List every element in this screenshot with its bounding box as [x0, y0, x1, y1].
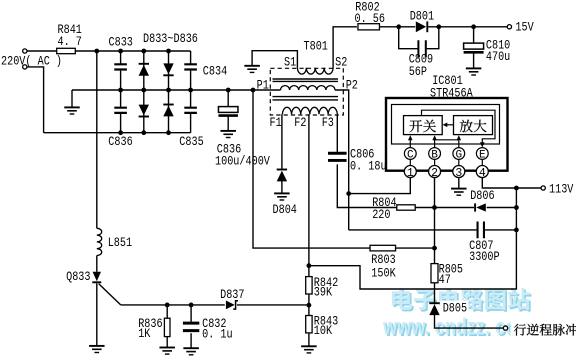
svg-text:100u/400V: 100u/400V [215, 154, 270, 168]
wire R805 to D805 [434, 283, 436, 305]
block switch text [409, 120, 436, 133]
pin 2 circle [429, 166, 441, 178]
wire S1 to ground [252, 51, 297, 68]
ground Q833 [89, 345, 105, 347]
wire C836 to bottom [120, 114, 122, 133]
wire P2 down [335, 90, 349, 230]
svg-text:D801: D801 [410, 10, 434, 24]
ground pin3 [451, 188, 467, 190]
capacitor C836 bridge [114, 108, 127, 113]
wire D837 to R842 junction [237, 304, 309, 306]
IC801 outer box [386, 98, 508, 171]
winding P1-P2 [281, 86, 335, 90]
wire S2 up to 15V rail [333, 27, 357, 68]
svg-text:C833: C833 [109, 36, 133, 50]
diode D836 [163, 106, 173, 117]
wire C807 to rail [485, 229, 517, 231]
svg-text:47: 47 [439, 273, 451, 287]
resistor R841 [57, 48, 76, 53]
wire C809 left stub [399, 27, 418, 49]
stem R836 ground [166, 337, 168, 348]
ground C832 [183, 347, 199, 349]
svg-text:15V: 15V [515, 21, 534, 35]
svg-text:150K: 150K [371, 266, 396, 280]
wire F3-C806 to R804 [336, 114, 338, 152]
svg-text:S2: S2 [335, 56, 347, 70]
svg-text:0. 18u: 0. 18u [350, 160, 387, 174]
junction B-R804 [432, 205, 437, 210]
svg-text:L851: L851 [108, 236, 132, 250]
junction col2 mid [166, 88, 171, 93]
svg-text:C835: C835 [179, 135, 203, 149]
wire F1 down to D804 [281, 114, 283, 169]
junction col1 bottom [141, 130, 146, 135]
wire G stem [458, 140, 460, 148]
svg-text:P1: P1 [257, 79, 269, 93]
block amplifier text [460, 120, 487, 133]
capacitor C832 [183, 323, 199, 331]
ground stem bridge [71, 90, 73, 107]
feedback loop switch to E [422, 110, 496, 142]
svg-text:F1: F1 [270, 116, 282, 130]
wire C806 down [337, 164, 397, 207]
capacitor C836 100u/400V [218, 107, 238, 113]
wire R843 to ground [308, 333, 310, 346]
wire bridge mid rail [72, 89, 281, 91]
svg-text:www. cndzz. com: www. cndzz. com [382, 314, 532, 340]
diode D835 [163, 63, 173, 74]
resistor R843 [306, 316, 312, 333]
arrow amplifier to switch [446, 124, 454, 126]
svg-text:D804: D804 [273, 203, 297, 217]
stem B to pad [434, 159, 436, 165]
wire gate line [121, 304, 225, 306]
stem C832 [190, 305, 192, 322]
pin 1 circle [404, 166, 416, 178]
AC input terminal top [23, 49, 27, 53]
svg-text:470u: 470u [486, 50, 510, 64]
wire pin3 ground stem [458, 178, 460, 189]
ground R843 [301, 345, 317, 347]
pin E circle [476, 148, 488, 160]
junction B-R803 [432, 246, 437, 251]
resistor R842 [306, 277, 312, 294]
capacitor C835 [184, 108, 197, 113]
AC input terminal bottom [23, 65, 27, 69]
IC801 inner box [392, 105, 500, 145]
svg-text:39K: 39K [314, 286, 333, 300]
svg-text:Q833: Q833 [66, 270, 90, 284]
diode D804 [277, 171, 287, 182]
svg-text:F2: F2 [294, 116, 306, 130]
diode D801 [416, 21, 426, 32]
ground D804 [274, 192, 290, 194]
wire R804 to D806 [415, 207, 474, 209]
wire C809 right stub [427, 27, 439, 49]
junction C834 mid [188, 88, 193, 93]
wire AC bottom elbow [27, 67, 43, 133]
svg-text:4. 7: 4. 7 [58, 35, 82, 49]
junction rail-C807 [514, 228, 519, 233]
stem E to pad [481, 159, 483, 165]
wire D806 to rail [487, 207, 517, 209]
junction col2 bottom [166, 130, 171, 135]
capacitor C809 [418, 40, 425, 57]
pin 3 circle [453, 166, 465, 178]
svg-text:C834: C834 [203, 64, 227, 78]
junction C833 mid [118, 88, 123, 93]
transformer dashed box [270, 68, 343, 115]
core lines lower [273, 97, 339, 100]
Q833 gate diagonal [99, 284, 121, 305]
svg-text:113V: 113V [549, 183, 574, 197]
capacitor C810 [464, 43, 484, 49]
svg-text:T801: T801 [304, 40, 328, 54]
wire AC top to R841 [27, 50, 57, 52]
watermark site name shadow [394, 290, 532, 312]
wire C833 column [120, 51, 122, 64]
junction col2 top [166, 49, 171, 54]
block amplifier (fangda) box [454, 116, 493, 135]
label flyback white underlay [511, 321, 576, 338]
wire L851 to Q833 [96, 256, 98, 272]
terminal 15V [507, 25, 511, 29]
wire pin4 to 113V [482, 178, 541, 188]
capacitor C833 [114, 64, 127, 69]
wire P1 down to R803 row [253, 90, 370, 248]
junction D801 cathode [436, 24, 441, 29]
junction pin1-P2 [346, 191, 351, 196]
pin B circle [429, 148, 441, 160]
wire F2 down to R842 [308, 114, 310, 277]
winding F1-F3 [282, 107, 337, 114]
diode D833 [139, 65, 149, 76]
ground S1 [244, 65, 260, 67]
wire diode col2 [168, 51, 170, 133]
svg-text:R803: R803 [371, 253, 395, 267]
svg-text:D805: D805 [443, 302, 467, 316]
ground C836 [220, 130, 236, 132]
svg-text:3300P: 3300P [469, 250, 500, 264]
wire D801 to C810 [428, 26, 507, 28]
wire left vertical to L851 [96, 51, 98, 228]
stem C810 ground [473, 53, 475, 69]
pin C circle [404, 148, 416, 160]
wire R842 to R843 [308, 294, 310, 316]
junction 113V rail [514, 186, 519, 191]
svg-text:10K: 10K [314, 324, 333, 338]
resistor R805 [431, 264, 438, 283]
label flyback pulse (xing nicheng maichong) [514, 324, 576, 336]
thyristor Q833 [93, 272, 101, 281]
wire C833 to mid [120, 71, 122, 108]
resistor R803 [370, 245, 396, 251]
svg-text:C836: C836 [108, 135, 132, 149]
core lines upper [273, 79, 339, 81]
ground bridge mid rail [64, 106, 80, 108]
resistor R804 [397, 205, 415, 210]
junction R836 [165, 303, 170, 308]
stem C810 [473, 27, 475, 43]
junction C836 bottom [118, 130, 123, 135]
junction rail-D806 [514, 205, 519, 210]
arrow B into switch block [434, 140, 436, 148]
junction R842 top [307, 263, 312, 268]
wire R841 to bridge top rail [75, 50, 190, 52]
junction C832 [189, 303, 194, 308]
inductor L851 [97, 228, 102, 255]
ground R836 [159, 347, 175, 349]
diode D834 [139, 105, 149, 116]
wire B branch to amplifier [435, 139, 459, 141]
pin G circle [453, 148, 465, 160]
svg-text:S1: S1 [284, 56, 296, 70]
resistor R802 [358, 24, 380, 30]
wire pin2 rail [434, 178, 436, 264]
zener diode D837 [226, 301, 235, 310]
wire right rail [310, 188, 516, 289]
stem C836 electrolytic [227, 90, 229, 107]
wire pin1 to P2 rail [349, 178, 411, 194]
capacitor C807 [478, 222, 484, 239]
svg-text:220: 220 [372, 208, 390, 222]
wire C834 column [190, 51, 192, 64]
arrow C into switch block [409, 140, 411, 148]
svg-text:D837: D837 [220, 288, 244, 302]
diode D806 [476, 203, 486, 211]
wire R803 to B rail [396, 247, 435, 249]
terminal flyback pulse [503, 326, 507, 330]
wire R802 to D801 [380, 26, 416, 28]
ground C810 [466, 67, 482, 69]
resistor R836 [164, 318, 170, 336]
svg-text:F3: F3 [322, 116, 334, 130]
wire P2 rail to C807 [349, 229, 477, 231]
junction R842-R843 [307, 303, 312, 308]
wire C834 to mid [190, 71, 192, 108]
wire bridge bottom rail [44, 132, 191, 134]
wire C835 to bottom [190, 114, 192, 133]
winding S1-S2 [297, 68, 333, 74]
wire D804 to ground [281, 181, 283, 193]
junction col1 top [141, 49, 146, 54]
capacitor C806 [328, 153, 347, 160]
stem C to pad [409, 159, 411, 165]
svg-text:56P: 56P [409, 65, 427, 79]
junction col1 mid [141, 88, 146, 93]
svg-text:0. 56: 0. 56 [355, 12, 386, 26]
node P1 [251, 88, 256, 93]
stem C836 to ground [227, 116, 229, 131]
wire Q833 cathode to ground [96, 283, 98, 346]
junction C833 top [118, 49, 123, 54]
wire D805 to flyback terminal [435, 315, 504, 328]
label D805 white underlay [441, 301, 469, 316]
svg-text:D833~D836: D833~D836 [143, 32, 198, 46]
diode D805 [429, 304, 439, 315]
terminal 113V [541, 186, 545, 190]
svg-text:0. 1u: 0. 1u [202, 328, 233, 342]
stem C832 ground [190, 333, 192, 348]
svg-text:D806: D806 [470, 189, 494, 203]
junction C836 electrolytic [226, 88, 231, 93]
pin 4 circle [476, 166, 488, 178]
watermark site name [392, 288, 530, 310]
block switch (kaiguan) box [404, 116, 443, 135]
wire diode col1 [143, 51, 145, 133]
stem G to pad [458, 159, 460, 165]
stem R836 [166, 305, 168, 318]
svg-text:1K: 1K [138, 327, 151, 341]
junction D801 anode [396, 24, 401, 29]
junction R841 output [94, 49, 99, 54]
capacitor C834 [184, 64, 197, 69]
junction C810 [471, 24, 476, 29]
